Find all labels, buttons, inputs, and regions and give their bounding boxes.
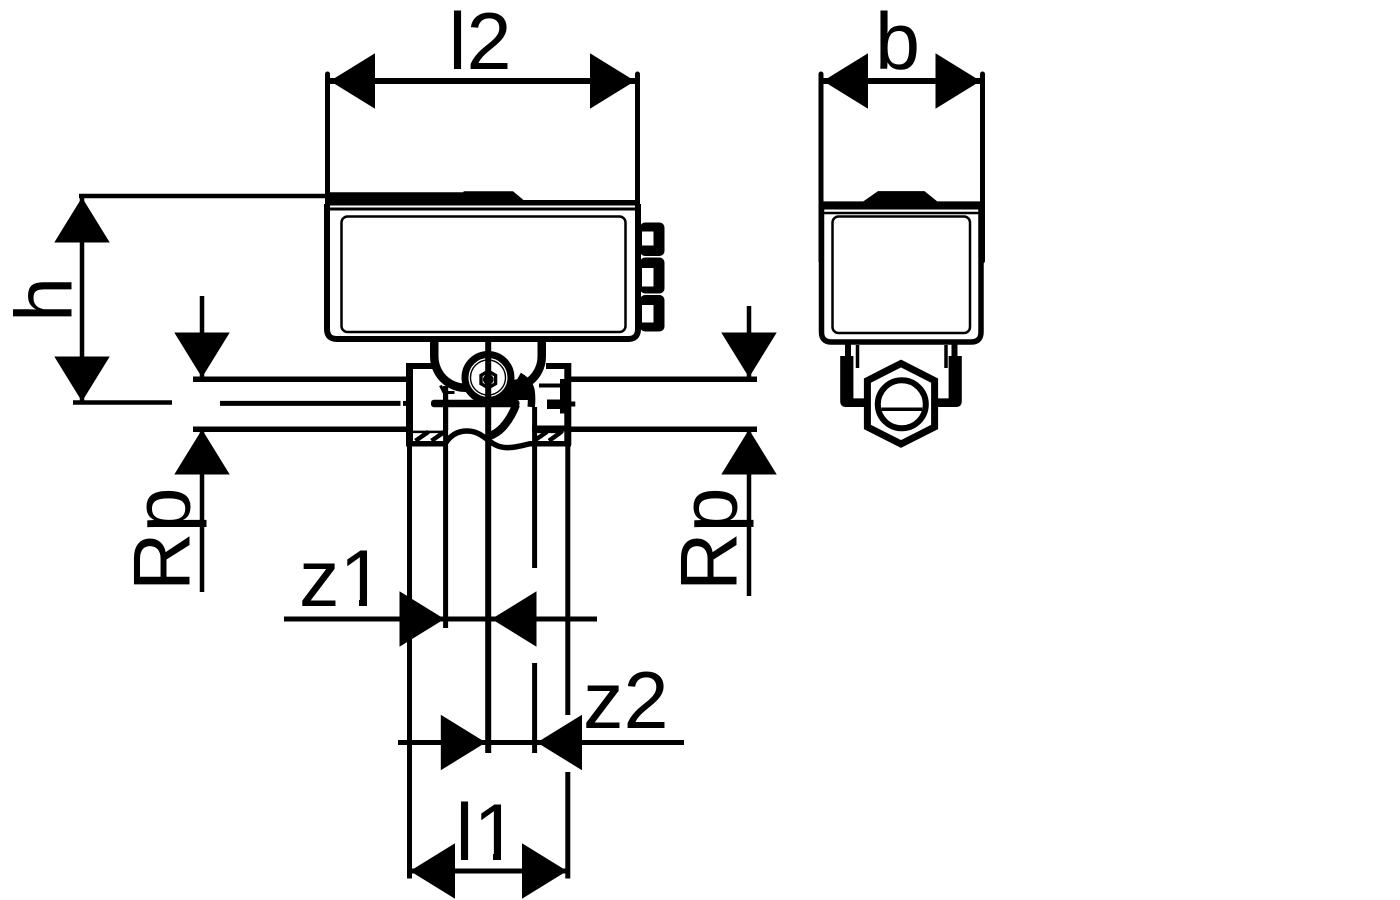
side view neck line right bbox=[944, 345, 948, 368]
dimension l2 left arrowhead bbox=[330, 53, 375, 109]
coupling thin ring bbox=[471, 360, 506, 395]
dimension l2 right arrowhead bbox=[590, 53, 635, 109]
pipe centerline stub right of body bbox=[571, 402, 576, 407]
svg-text:h: h bbox=[0, 277, 90, 322]
svg-text:Rp: Rp bbox=[118, 487, 208, 591]
ball lower contour arc bbox=[489, 405, 517, 437]
side view bracket left bbox=[840, 356, 865, 407]
dimension b line bbox=[821, 78, 983, 84]
side view neck line left bbox=[856, 345, 860, 368]
dimension h bottom reference line bbox=[73, 400, 172, 405]
dimension h bottom arrowhead bbox=[54, 357, 110, 402]
dimension b left arrowhead bbox=[823, 53, 868, 109]
valve body left edge bbox=[406, 363, 413, 445]
valve body top edge left segment bbox=[406, 363, 433, 369]
dimension Rp left extension line lower bbox=[200, 429, 205, 592]
hex nut chord bbox=[881, 408, 922, 412]
dimension l1 right arrowhead bbox=[522, 843, 567, 899]
side view box inner panel bbox=[833, 217, 971, 334]
pipe bottom line right segment bbox=[568, 427, 757, 433]
dimension h top reference line bbox=[79, 194, 327, 199]
hatch top thin line right bbox=[533, 431, 564, 434]
dimension l1 left arrowhead bbox=[410, 843, 455, 899]
svg-text:l1: l1 bbox=[456, 788, 519, 878]
seat mark left bbox=[441, 386, 455, 393]
valve center bar bbox=[431, 400, 520, 408]
hatch stroke left 2 bbox=[432, 432, 445, 441]
svg-text:Rp: Rp bbox=[665, 487, 755, 591]
dimension z1 line bbox=[284, 617, 597, 622]
extension line z2 right upper bbox=[532, 407, 537, 568]
actuator cap band (front) bbox=[325, 191, 639, 205]
connector tab 3 bbox=[640, 295, 665, 332]
hatch stroke left 1 bbox=[416, 432, 429, 441]
dimension l2 line bbox=[328, 78, 638, 84]
dimension z2 line bbox=[398, 740, 684, 745]
ball shoulder fill bbox=[499, 379, 531, 401]
dimension Rp left lower arrowhead bbox=[174, 430, 230, 475]
yoke right leg and arc bbox=[495, 341, 542, 388]
pipe top line right segment bbox=[568, 377, 757, 383]
dimension Rp right extension line upper bbox=[747, 306, 752, 377]
extension line z2 right lower bbox=[532, 663, 537, 753]
pipe centerline long dash bbox=[220, 401, 401, 406]
dimension b left extension line bbox=[819, 74, 824, 261]
pipe top line left segment bbox=[193, 377, 407, 383]
dimension z1 right arrowhead bbox=[492, 591, 537, 647]
dimension Rp right upper arrowhead bbox=[721, 333, 777, 378]
ball right contour arc bbox=[519, 376, 532, 407]
dimension b right extension line bbox=[980, 74, 985, 261]
thread end band right bbox=[532, 426, 571, 432]
extension line l1 right upper bbox=[565, 445, 570, 715]
right end internals bbox=[539, 379, 566, 414]
hex nut circle bbox=[878, 380, 926, 428]
dimension h line bbox=[80, 196, 85, 403]
svg-text:b: b bbox=[875, 0, 920, 87]
dimension Rp right extension line lower bbox=[747, 429, 752, 596]
valve body top edge right segment bbox=[546, 363, 571, 369]
internal socket edge left bbox=[443, 386, 448, 430]
side view right foot bbox=[952, 342, 958, 357]
valve body right edge bbox=[564, 363, 571, 445]
coupling center dot bbox=[483, 374, 494, 385]
valve body bottom edge with ball wave bbox=[406, 431, 571, 448]
side view cap band bbox=[820, 191, 983, 209]
connector tab 1 bbox=[640, 223, 665, 257]
dimension l1 line bbox=[410, 869, 568, 874]
dimension l2 right extension line bbox=[635, 74, 640, 255]
actuator box outline (front) bbox=[327, 204, 638, 339]
svg-text:z1: z1 bbox=[299, 534, 385, 624]
extension line l1 left bbox=[407, 445, 412, 879]
hatch top thin line left bbox=[413, 431, 446, 434]
connector tab 2 bbox=[640, 258, 665, 294]
stem centerline bbox=[485, 341, 491, 753]
dimension h top arrowhead bbox=[54, 198, 110, 243]
extension line z1 left bbox=[443, 430, 448, 628]
dimension Rp left extension line upper bbox=[200, 296, 205, 377]
pipe bottom line left segment bbox=[193, 427, 407, 433]
coupling hexagon bbox=[481, 371, 496, 388]
extension line l1 right lower bbox=[565, 772, 570, 879]
yoke left leg and arc bbox=[434, 341, 481, 388]
actuator box inner panel (front) bbox=[342, 217, 626, 333]
dimension Rp left upper arrowhead bbox=[174, 333, 230, 378]
hatch stroke right 2 bbox=[549, 432, 562, 441]
pipe centerline short dash at body bbox=[403, 401, 407, 406]
dimension z1 left arrowhead bbox=[400, 591, 445, 647]
svg-text:z2: z2 bbox=[583, 656, 669, 746]
hatch stroke right 1 bbox=[534, 432, 547, 441]
svg-text:l2: l2 bbox=[449, 0, 512, 87]
dimension Rp right lower arrowhead bbox=[721, 430, 777, 475]
dimension b right arrowhead bbox=[936, 53, 981, 109]
side view box outline bbox=[822, 204, 982, 342]
dimension l2 left extension line bbox=[325, 74, 330, 255]
coupling outer ring bbox=[465, 355, 511, 401]
side view bracket right bbox=[937, 356, 962, 407]
side view left foot bbox=[845, 342, 851, 357]
hex nut bbox=[867, 364, 934, 445]
dimension z2 left arrowhead bbox=[441, 715, 486, 771]
dimension z2 right arrowhead bbox=[537, 715, 582, 771]
